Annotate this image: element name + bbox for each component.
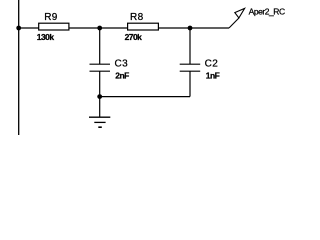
wire C3 stem bottom [99, 71, 101, 96]
capacitor C2 [180, 63, 201, 65]
svg-text:270k: 270k [125, 32, 143, 42]
svg-text:R8: R8 [130, 12, 144, 23]
node junction between R9 and R8 (C3 tap) [97, 26, 102, 31]
svg-text:130k: 130k [37, 32, 55, 42]
wire C2 stem bottom [189, 71, 191, 96]
svg-text:1nF: 1nF [206, 70, 220, 80]
resistor R9 [39, 23, 69, 30]
wire C3 stem top [99, 28, 101, 64]
wire diagonal to port arrow [229, 18, 239, 28]
svg-text:2nF: 2nF [115, 70, 129, 80]
resistor R8 [128, 23, 159, 30]
svg-text:C2: C2 [205, 59, 219, 70]
node junction at C2 tap [188, 26, 193, 31]
wire R8 to output bend [158, 27, 229, 29]
node junction at ground tap [97, 94, 102, 99]
svg-text:C3: C3 [115, 59, 129, 70]
wire bottom rail [100, 96, 190, 98]
wire from left bus to R9 [19, 27, 39, 29]
ground [89, 116, 110, 118]
svg-text:Aper2_RC: Aper2_RC [249, 7, 285, 17]
wire R9 to R8 [69, 27, 128, 29]
wire ground stem [99, 97, 101, 117]
capacitor C3 [90, 63, 111, 65]
wire left vertical bus [18, 0, 20, 135]
svg-text:R9: R9 [44, 12, 58, 23]
node junction at left bus [16, 26, 21, 31]
port arrow Aper2_RC [235, 8, 245, 18]
wire C2 stem top [189, 28, 191, 64]
